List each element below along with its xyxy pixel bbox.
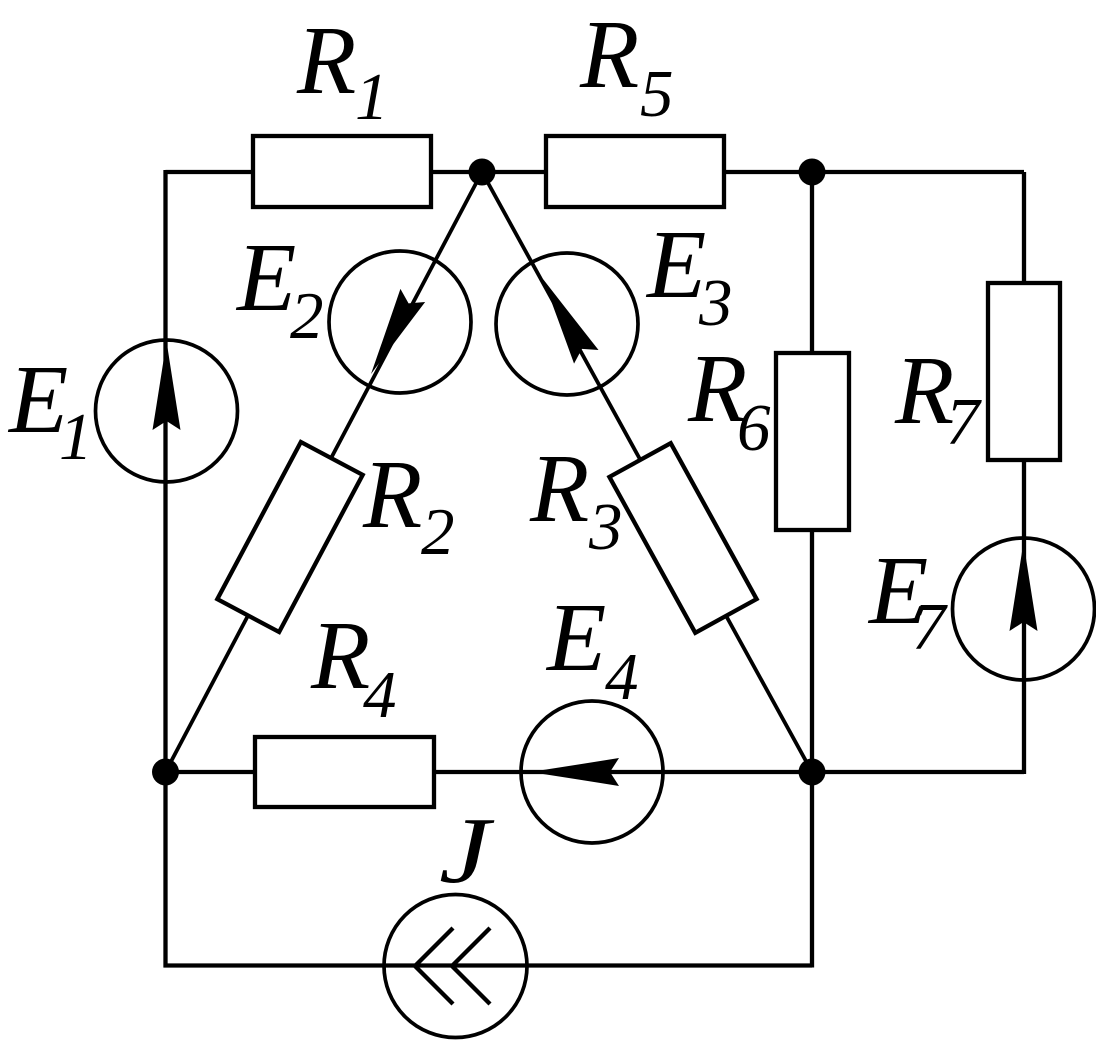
svg-text:1: 1 — [355, 60, 389, 134]
resistor R4 — [255, 737, 434, 807]
svg-text:4: 4 — [605, 640, 639, 714]
label R6 — [687, 335, 771, 465]
node B junction dot — [799, 159, 826, 186]
label E2 — [235, 224, 324, 353]
svg-text:7: 7 — [912, 590, 948, 664]
wire left diagonal (node A to node C) — [166, 172, 483, 772]
node A junction dot — [469, 159, 496, 186]
wire bottom-right vertical — [810, 772, 814, 968]
svg-text:3: 3 — [698, 266, 733, 340]
svg-text:E: E — [645, 211, 706, 318]
svg-text:1: 1 — [59, 400, 93, 474]
wire top horizontal — [166, 170, 1025, 174]
source E2 — [329, 251, 471, 393]
resistor R2 — [217, 442, 362, 632]
svg-text:2: 2 — [290, 279, 324, 353]
wire right branch horizontal — [812, 770, 1024, 774]
node D junction dot — [799, 759, 826, 786]
label J — [439, 799, 495, 903]
source E7 — [953, 538, 1095, 680]
label R2 — [362, 441, 455, 569]
wire bottom horizontal — [164, 963, 813, 967]
label E7 — [867, 537, 948, 664]
resistor R5 — [546, 136, 724, 207]
label E3 — [645, 211, 733, 340]
source E1 — [96, 340, 238, 482]
svg-text:J: J — [439, 799, 495, 903]
resistor R7 — [988, 283, 1060, 460]
wire right vertical — [1022, 172, 1026, 774]
svg-text:R: R — [310, 602, 370, 709]
svg-text:R: R — [579, 1, 639, 108]
svg-text:R: R — [529, 435, 589, 542]
svg-text:E: E — [545, 584, 606, 691]
svg-text:3: 3 — [588, 490, 623, 564]
resistor R1 — [253, 136, 431, 207]
label R7 — [894, 337, 982, 459]
label R4 — [310, 602, 397, 732]
svg-text:R: R — [362, 441, 422, 548]
svg-text:6: 6 — [737, 391, 771, 465]
current source J — [384, 895, 527, 1038]
resistor R6 — [776, 353, 849, 530]
svg-text:E: E — [235, 224, 296, 331]
wire left vertical — [163, 170, 167, 968]
node C junction dot — [152, 759, 179, 786]
label R5 — [579, 1, 674, 131]
label R3 — [529, 435, 623, 564]
label E1 — [7, 346, 93, 474]
wire right diagonal (node A to node D) — [482, 172, 812, 772]
label R1 — [296, 7, 389, 134]
wire R6 branch vertical — [810, 172, 814, 772]
resistor R3 — [609, 443, 756, 633]
label E4 — [545, 584, 639, 714]
svg-text:7: 7 — [946, 385, 982, 459]
svg-text:R: R — [296, 7, 356, 114]
svg-text:2: 2 — [421, 495, 455, 569]
source E3 — [496, 253, 638, 395]
svg-text:5: 5 — [640, 57, 674, 131]
wire middle horizontal (R4 row) — [166, 770, 813, 774]
source E4 — [521, 701, 663, 843]
svg-text:4: 4 — [363, 658, 397, 732]
